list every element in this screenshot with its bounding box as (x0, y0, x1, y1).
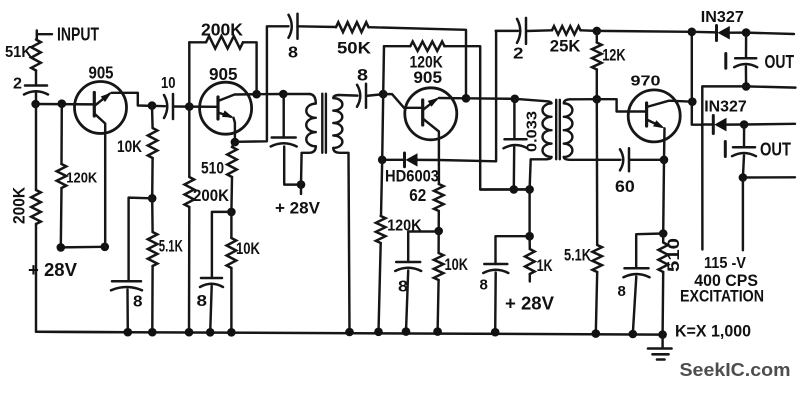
transistor Q1 base bar (93, 93, 96, 117)
wire excitation stub 2 (742, 178, 744, 251)
wire C14 to J30 (743, 155, 744, 177)
wire C5 to 50K (298, 25, 337, 28)
label OUT 2 (760, 140, 791, 160)
wire 510 to J11 (230, 177, 233, 212)
node rail dot 2 (148, 328, 157, 337)
node J2 (58, 99, 67, 108)
label 115-V (704, 255, 746, 272)
svg-text:0.033: 0.033 (524, 111, 541, 152)
capacitor C3 8 st1 (111, 281, 142, 290)
transistor Q4 970 circle (628, 90, 680, 142)
svg-text:1K: 1K (537, 256, 554, 275)
wire left rail lower (36, 224, 130, 332)
label IN327 low (704, 99, 747, 116)
wire C3 branch (129, 198, 153, 282)
wire 51K to C1 (35, 71, 37, 86)
wire 510 st2 lead (232, 142, 235, 147)
label 50K (337, 39, 372, 58)
wire C13 lead (745, 33, 748, 59)
svg-text:5.1K: 5.1K (159, 238, 183, 256)
label 8 st1 (133, 294, 143, 311)
label IN327 top (701, 9, 744, 26)
label 10K st3 (445, 255, 469, 274)
wire 200K top left lead (189, 41, 206, 43)
diode D1 HD6003 bar (403, 153, 406, 167)
wire C4 to rail (210, 286, 212, 332)
wire Q4 emitter down (663, 128, 666, 160)
wire Q4 collector riser (691, 32, 693, 102)
capacitor C7 8 st3in (357, 84, 366, 108)
resistor R11 120K top (410, 42, 444, 51)
resistor R7 510 st2 (227, 147, 237, 177)
wire base st3 (383, 94, 423, 108)
wire diode row (382, 159, 404, 161)
transistor Q1 collector line (94, 114, 105, 248)
label 25K (550, 38, 581, 56)
label 8 st3 (398, 279, 408, 296)
label +28V st4 (505, 294, 554, 314)
resistor R16 12K (592, 43, 602, 70)
label 8 st4a (480, 277, 488, 294)
wire C6 to +28V node (284, 147, 301, 185)
wire 120K to +28V row (60, 188, 63, 247)
wire C13b branch (636, 234, 663, 269)
node J4 (101, 243, 110, 252)
label 51K (5, 44, 32, 61)
wire 10K st2 lead (230, 212, 232, 238)
label HD6003 (385, 168, 439, 186)
wire 50K to Q3 emitter (369, 27, 467, 98)
label 200K rotated (11, 187, 29, 224)
capacitor C8 2 (517, 18, 526, 44)
label 2 top (513, 46, 524, 63)
svg-text:10K: 10K (117, 137, 143, 156)
node J15 (511, 95, 520, 104)
svg-text:120K: 120K (66, 170, 97, 187)
node J5 (148, 101, 157, 110)
wire C9 to J20 (513, 147, 516, 189)
wire riser st2 down (188, 107, 190, 177)
node J16 (378, 156, 387, 165)
wire C6 riser (282, 94, 284, 138)
wire T1 primary bottom (301, 146, 316, 184)
node J26 (659, 229, 668, 238)
label 510 st4 rotated (664, 238, 683, 272)
svg-text:+ 28V: + 28V (505, 294, 554, 314)
node J3 (57, 243, 66, 252)
transistor Q1 emitter arrow (101, 93, 112, 103)
wire feedback riser st2 (188, 42, 190, 106)
transformer T2 primary (543, 101, 552, 157)
svg-text:51K: 51K (5, 44, 32, 61)
svg-text:10: 10 (161, 75, 176, 92)
label 120K st3 (387, 218, 422, 235)
node J18 (593, 27, 602, 36)
node J19 (593, 95, 602, 104)
node rail dot 6 (345, 328, 354, 337)
svg-text:INPUT: INPUT (57, 24, 100, 45)
watermark SeekIC.com (680, 359, 791, 380)
label 10K st1 (117, 137, 143, 156)
label 970 Q4 (631, 73, 661, 90)
transformer T2 secondary (564, 99, 573, 157)
wire 120K st3 to rail (379, 243, 381, 332)
node J11 (227, 208, 236, 217)
resistor R8 5.1K st2 (148, 232, 158, 266)
wire 120K top left lead (382, 46, 385, 94)
svg-text:2: 2 (513, 46, 524, 63)
wire 12K top lead (596, 31, 598, 43)
wire 120K st3 (381, 160, 382, 216)
label 10K st2 (236, 240, 260, 258)
svg-text:8: 8 (133, 294, 143, 311)
wire C4 branch (212, 212, 232, 278)
label 12K (602, 47, 625, 65)
wire +28V stub T1 (300, 185, 302, 194)
wire 1K lead (528, 236, 531, 249)
label 8 st2 (197, 293, 208, 310)
wire ground rail (36, 332, 663, 335)
node INPUT terminal (37, 31, 52, 40)
node J10 (279, 90, 288, 99)
capacitor C5 8 feedback (289, 14, 298, 39)
capacitor C13b 8 st4b (624, 268, 650, 277)
resistor R14 10K st3 (434, 253, 444, 280)
svg-text:+ 28V: + 28V (275, 199, 321, 218)
capacitor C12 60 (620, 148, 629, 171)
wire Q1 out (112, 93, 166, 106)
node J12 +28V T1 (297, 180, 306, 189)
resistor R6 200K st2 (185, 177, 195, 207)
node J21 (525, 185, 534, 194)
label 905 Q1 (89, 62, 114, 82)
node J29 (740, 120, 749, 129)
node rail dot 10 (491, 328, 500, 337)
svg-text:8: 8 (357, 67, 368, 85)
svg-text:970: 970 (631, 73, 661, 90)
wire J13 to J16 (382, 94, 383, 160)
transistor Q4 base bar (645, 103, 648, 126)
label 60 (615, 178, 635, 196)
node rail dot 12 (629, 330, 638, 339)
svg-text:OUT: OUT (765, 52, 795, 72)
label 1 out2 (724, 142, 727, 157)
wire 510 st4 lead (662, 160, 665, 234)
wire D3 to J29 (727, 123, 745, 126)
transformer T2 core (556, 100, 560, 160)
label 1 out1 (724, 54, 727, 69)
capacitor C4 8 st2 (200, 278, 223, 287)
label 200K top (201, 20, 243, 40)
wire T2 sec bottom (564, 157, 621, 160)
transistor Q2 905 circle (200, 82, 252, 134)
node J24 (688, 28, 697, 37)
svg-text:8: 8 (197, 293, 208, 310)
wire T2 primary top (515, 99, 546, 101)
svg-text:IN327: IN327 (701, 9, 744, 26)
wire C3 to rail (126, 290, 129, 333)
svg-text:12K: 12K (602, 47, 625, 65)
label EXCITATION (680, 287, 764, 306)
resistor R18 5.1K st4 (592, 245, 602, 272)
transistor Q4 emitter arrow (653, 120, 664, 128)
wire 120K top right lead (444, 46, 529, 189)
wire row C out (744, 123, 795, 126)
wire 10K st3 lead (437, 231, 440, 253)
svg-text:OUT: OUT (760, 140, 791, 160)
wire 5.1K to rail (151, 266, 154, 332)
wire C10 to rail (406, 271, 408, 332)
svg-text:25K: 25K (550, 38, 581, 56)
svg-text:8: 8 (288, 45, 298, 62)
wire 120K branch (60, 104, 63, 164)
wire C11 to rail (494, 273, 497, 333)
wire C13b to rail (633, 277, 637, 335)
wire row B (702, 86, 795, 124)
node J7 (148, 194, 157, 203)
transistor Q3 905 circle (405, 88, 457, 140)
resistor R3 120K (57, 164, 67, 188)
node rail dot 3 (185, 328, 194, 337)
wire C13 to J28 (745, 66, 748, 86)
label 120K st1 (66, 170, 97, 187)
wire T2 primary bottom (530, 157, 552, 189)
node rail dot 13 (658, 330, 667, 339)
svg-text:50K: 50K (337, 39, 372, 58)
resistor R2 200K (31, 190, 41, 224)
resistor R9 10K st2 (227, 238, 237, 268)
transistor Q1 emitter line (94, 94, 109, 106)
transistor Q4 emitter line (647, 120, 661, 127)
label 905 Q3 (413, 68, 442, 87)
label +28V st1 (28, 260, 77, 280)
label OUT 1 (765, 52, 795, 72)
label 400 CPS (694, 271, 758, 290)
ground symbol (648, 335, 672, 360)
transistor Q3 collector line (423, 119, 439, 185)
wire 120K top lead a (384, 45, 410, 47)
wire D1 to collector (418, 159, 439, 162)
resistor R13 62 (434, 184, 444, 211)
diode D3 IN327 (714, 118, 726, 132)
svg-text:510: 510 (201, 159, 224, 178)
label K=X 1000 (675, 322, 751, 341)
resistor R5 200K top (206, 36, 243, 48)
node J9 (231, 138, 240, 147)
svg-text:10K: 10K (236, 240, 260, 258)
wire 5.1K top lead (151, 198, 154, 232)
capacitor C1 2 (24, 86, 48, 95)
wire C8 to 25K (527, 29, 553, 32)
node rail dot 4 (206, 328, 215, 337)
wire C10 branch (408, 232, 439, 263)
svg-text:10K: 10K (445, 255, 469, 274)
node J28 (742, 82, 751, 91)
wire row A out (746, 33, 794, 34)
node rail dot 5 (227, 328, 236, 337)
label 5.1K st2 (159, 238, 183, 256)
wire T1 primary top (283, 93, 309, 95)
node rail dot 7 (374, 328, 383, 337)
svg-text:905: 905 (413, 68, 442, 87)
resistor R10 50K (336, 22, 369, 32)
wire D2 to J27 (730, 31, 746, 34)
resistor R4 10K st1 (148, 128, 158, 158)
node J20 (510, 185, 519, 194)
label 62 (409, 185, 426, 205)
node J8 (252, 90, 261, 99)
wire T1 sec top to C7 (339, 94, 358, 97)
transistor Q1 905 circle (75, 82, 127, 134)
wire row A (597, 30, 692, 33)
label 10 (161, 75, 176, 92)
wire 10K st1 top lead (151, 106, 154, 128)
capacitor C10 8 st3 (395, 262, 421, 271)
wire row A diode lead (692, 31, 716, 34)
node J22 (525, 232, 534, 241)
wire 62 to J17 (437, 211, 440, 231)
wire C8 lead (496, 30, 518, 32)
resistor R17 1K (525, 249, 535, 274)
label INPUT (57, 24, 100, 45)
resistor R12 120K st3 (376, 216, 386, 243)
label 8 feedback (288, 45, 298, 62)
wire row C left (702, 123, 713, 125)
node rail dot 1 (124, 328, 133, 337)
wire 25K to J18 (581, 29, 597, 32)
wire 5.1K riser st4 (596, 99, 599, 245)
transistor Q2 collector line (218, 94, 257, 101)
wire row D out (743, 176, 795, 179)
svg-text:115 -V: 115 -V (704, 255, 746, 272)
svg-text:8: 8 (480, 277, 488, 294)
wire 200K top right lead (243, 42, 257, 94)
node rail dot 9 (433, 327, 442, 336)
transistor Q2 emitter line (218, 113, 231, 117)
node J14 (462, 94, 471, 103)
node J30 (739, 173, 748, 182)
wire 10K st3 to rail (438, 280, 439, 332)
svg-text:EXCITATION: EXCITATION (680, 287, 764, 306)
wire Q2 emitter down (234, 118, 235, 142)
wire 5.1K st4 to rail (596, 272, 597, 334)
label 8 st4b (618, 283, 626, 300)
capacitor C9 0.033 (504, 139, 528, 148)
diode D2 IN327 bar (715, 26, 718, 41)
wire emitter row to T2 (466, 97, 515, 100)
svg-text:IN327: IN327 (704, 99, 747, 116)
node J1 (31, 100, 40, 109)
wire J21 down (528, 189, 530, 236)
wire 0.033 riser (513, 99, 515, 140)
svg-text:SeekIC.com: SeekIC.com (680, 359, 791, 380)
label +28V T1 (275, 199, 321, 218)
resistor R15 25K (552, 26, 581, 34)
transformer T1 secondary (333, 95, 342, 148)
svg-text:60: 60 (615, 178, 635, 196)
label 1K (537, 256, 554, 275)
wire T1 secondary bottom (333, 148, 349, 332)
wire Q4 collector to row C (692, 102, 703, 125)
wire +28V row st1 (61, 246, 105, 249)
wire base st4 (597, 99, 647, 111)
svg-text:200K: 200K (11, 187, 29, 224)
transistor Q2 base bar (216, 97, 219, 119)
node J25 (660, 156, 669, 165)
node J23 (688, 97, 697, 106)
label 200K st2 (193, 186, 230, 205)
node J17 (434, 227, 443, 236)
wire C11 branch (496, 236, 530, 264)
label 2 (13, 76, 22, 93)
svg-text:62: 62 (409, 185, 426, 205)
wire Q3 emitter row (439, 97, 466, 100)
transistor Q4 collector line (647, 101, 693, 107)
svg-text:HD6003: HD6003 (385, 168, 439, 186)
transformer T1 core (322, 94, 326, 153)
wire 200K st2 to rail (188, 207, 191, 332)
diode D1 HD6003 (406, 153, 418, 166)
node J27 (742, 28, 751, 37)
svg-text:510: 510 (664, 238, 683, 272)
wire 1K stub (529, 274, 531, 282)
diode D2 IN327 (718, 26, 730, 40)
label 905 Q2 (209, 64, 238, 84)
wire bias row (480, 188, 529, 191)
label 8 st3in (357, 67, 368, 85)
wire diode row right (439, 31, 496, 161)
svg-text:200K: 200K (201, 20, 243, 40)
wire C2 to J6 (173, 105, 189, 108)
label 510 st2 (201, 159, 224, 178)
wire base st2 (189, 105, 218, 108)
capacitor C13 1 out1 (734, 58, 757, 67)
wire T2 sec top lead (570, 98, 597, 101)
node J6 (185, 102, 194, 111)
label 120K top (410, 53, 444, 72)
wire C1 to node (35, 92, 37, 105)
node rail dot 11 (592, 329, 601, 338)
wire 510 st4 leads (661, 234, 664, 335)
svg-text:5.1K: 5.1K (564, 246, 592, 265)
wire C14 lead (743, 125, 746, 148)
wire base row stage1 (36, 103, 94, 106)
svg-text:905: 905 (89, 62, 114, 82)
wire 10K to J7 (151, 158, 154, 198)
diode D3 IN327 bar (712, 116, 715, 134)
capacitor C2 10 (164, 94, 173, 119)
transistor Q3 base bar (421, 100, 424, 125)
svg-text:8: 8 (618, 283, 626, 300)
wire Q2 collector to T1 (257, 93, 284, 96)
label 0.033 rotated (524, 111, 541, 152)
wire C7 to J13 (367, 94, 384, 96)
node J13 (379, 90, 388, 99)
svg-text:K=X 1,000: K=X 1,000 (675, 322, 751, 341)
capacitor C14 1 out2 (732, 147, 756, 156)
resistor R19 510 st4 (658, 243, 668, 273)
svg-text:+ 28V: + 28V (28, 260, 77, 280)
wire 12K to J19 (596, 70, 598, 100)
capacitor C11 8 st4a (483, 264, 508, 273)
wire emitter feedback row (235, 26, 289, 142)
transformer T1 primary (306, 94, 316, 146)
svg-text:905: 905 (209, 64, 238, 84)
wire excitation stub 1 (701, 125, 704, 250)
resistor R1 51K (31, 40, 41, 71)
transistor Q2 emitter arrow (222, 110, 234, 117)
transistor Q3 emitter arrow (428, 98, 439, 107)
